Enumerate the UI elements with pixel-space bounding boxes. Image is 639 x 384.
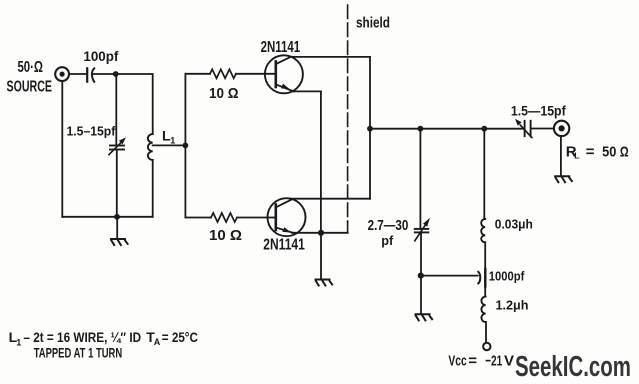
svg-text:1000pf: 1000pf xyxy=(489,269,525,283)
svg-text:1.2μh: 1.2μh xyxy=(496,297,529,312)
svg-text:1.5—15pf: 1.5—15pf xyxy=(511,103,566,119)
svg-text:−21: −21 xyxy=(485,353,502,370)
svg-text:shield: shield xyxy=(356,15,390,32)
svg-text:50: 50 xyxy=(602,144,616,161)
svg-text:2N1141: 2N1141 xyxy=(261,39,301,56)
svg-text:A: A xyxy=(154,337,161,347)
svg-text:Vcc: Vcc xyxy=(448,353,466,370)
svg-text:1: 1 xyxy=(16,338,21,348)
svg-text:– 2t = 16 WIRE, ¼″ ID: – 2t = 16 WIRE, ¼″ ID xyxy=(23,329,141,345)
svg-text:L: L xyxy=(574,151,579,161)
svg-text:SOURCE: SOURCE xyxy=(7,78,53,95)
svg-text:pf: pf xyxy=(381,233,394,248)
svg-text:1: 1 xyxy=(170,136,175,146)
svg-text:100pf: 100pf xyxy=(83,48,118,64)
svg-text:SeekIC.com: SeekIC.com xyxy=(515,351,631,383)
svg-text:V: V xyxy=(504,353,514,370)
svg-text:10 Ω: 10 Ω xyxy=(209,228,242,244)
svg-text:= 25°C: = 25°C xyxy=(162,329,198,345)
svg-text:=: = xyxy=(468,353,477,370)
svg-text:Ω: Ω xyxy=(620,144,629,161)
svg-text:TAPPED AT 1 TURN: TAPPED AT 1 TURN xyxy=(34,345,123,361)
svg-text:10 Ω: 10 Ω xyxy=(209,86,239,102)
svg-text:2.7—30: 2.7—30 xyxy=(368,217,409,234)
svg-text:1.5–15pf: 1.5–15pf xyxy=(67,124,116,139)
svg-text:2N1141: 2N1141 xyxy=(263,236,305,253)
svg-text:=: = xyxy=(586,144,595,161)
svg-text:0.03μh: 0.03μh xyxy=(495,216,533,231)
svg-text:50·Ω: 50·Ω xyxy=(18,59,44,76)
